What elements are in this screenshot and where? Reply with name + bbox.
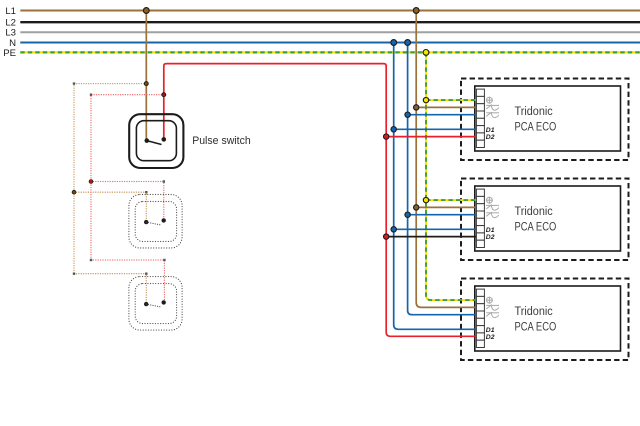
svg-text:PCA ECO: PCA ECO	[515, 322, 557, 334]
junction L1 switch drop	[143, 8, 149, 14]
svg-text:L1: L1	[5, 6, 16, 17]
AC terminal symbol N U1	[486, 113, 499, 118]
svg-text:D2: D2	[486, 234, 495, 241]
wire D2 feed ballast 2	[386, 236, 478, 238]
AC terminal symbol N U3	[486, 313, 499, 318]
junction red ghost tap	[162, 93, 166, 97]
earth terminal symbol U1	[486, 97, 493, 104]
ghost pulse switch S2 (dotted)	[129, 195, 182, 249]
svg-text:PE: PE	[3, 48, 16, 59]
svg-text:D2: D2	[486, 334, 495, 341]
junction brown ghost tap	[144, 82, 148, 86]
wire PE feed ballast 1	[426, 99, 478, 101]
bus L1	[5, 6, 640, 17]
ghost junction red branch	[89, 180, 93, 184]
svg-text:Pulse switch: Pulse switch	[192, 135, 251, 147]
earth terminal symbol U3	[486, 297, 493, 304]
wire PE feed ballast 2	[426, 199, 478, 201]
terminal strip U1	[476, 89, 484, 147]
svg-text:PCA ECO: PCA ECO	[515, 222, 557, 234]
wire PE drop (yellow-green)	[426, 52, 478, 300]
ghost pulse switch S3 (dotted)	[129, 277, 182, 331]
junction N drop	[405, 40, 411, 46]
ghost wire bus red (dotted)	[91, 95, 164, 303]
bus N	[9, 38, 640, 49]
AC terminal symbol N U2	[486, 213, 499, 218]
pulse switch S1	[129, 114, 183, 168]
svg-text:Tridonic: Tridonic	[515, 106, 553, 118]
junction PE drop	[423, 50, 429, 56]
AC terminal symbol L U1	[486, 105, 499, 110]
junction PE ballast 2	[423, 197, 428, 202]
wire L drop (brown)	[416, 11, 478, 308]
junction D2 ballast 1	[384, 134, 389, 139]
ballast U3 Tridonic PCA ECO	[461, 279, 629, 361]
wire pulse switch to D2 bus (red)	[164, 64, 478, 337]
wire N feed ballast 2	[408, 214, 478, 216]
ghost corner anchor brown bottom	[73, 273, 75, 275]
junction D1 ballast 1	[391, 127, 396, 132]
junction D2 ballast 2	[384, 234, 389, 239]
junction L1 ballast drop	[413, 8, 419, 14]
junction L ballast 1	[414, 105, 419, 110]
junction N ballast 1	[405, 112, 410, 117]
junction D1 drop	[391, 40, 397, 46]
svg-text:D1: D1	[486, 327, 495, 334]
terminal strip U2	[476, 189, 484, 247]
ghost corner anchor red to S3	[163, 259, 165, 261]
bus PE	[3, 48, 640, 59]
junction N ballast 2	[405, 212, 410, 217]
wire N feed ballast 1	[408, 114, 478, 116]
ghost corner anchor brown to S2	[145, 191, 147, 193]
svg-text:Tridonic: Tridonic	[515, 306, 553, 318]
wire D1 feed ballast 1	[394, 128, 478, 130]
terminal strip U3	[476, 289, 484, 347]
junction L ballast 2	[414, 205, 419, 210]
junction D1 ballast 2	[391, 227, 396, 232]
AC terminal symbol L U2	[486, 205, 499, 210]
earth terminal symbol U2	[486, 197, 493, 204]
ghost corner anchor brown top	[73, 82, 75, 84]
wire L feed ballast 1	[416, 106, 478, 108]
ghost junction brown branch	[72, 190, 76, 194]
bus L3	[5, 28, 640, 39]
svg-text:D2: D2	[486, 134, 495, 141]
ghost corner anchor red top	[90, 94, 92, 96]
ghost corner anchor red bottom	[90, 259, 92, 261]
wire D1 feed ballast 2	[394, 228, 478, 230]
ballast U2 Tridonic PCA ECO	[461, 179, 629, 261]
AC terminal symbol L U3	[486, 305, 499, 310]
wire L1 drop to pulse switch (brown)	[145, 11, 147, 141]
ghost wire bus brown (dotted)	[74, 84, 146, 305]
ballast U1 Tridonic PCA ECO	[461, 79, 629, 161]
wire N drop (blue)	[408, 43, 478, 315]
wire L feed ballast 2	[416, 206, 478, 208]
svg-text:D1: D1	[486, 127, 495, 134]
junction PE ballast 1	[423, 97, 428, 102]
wire D2 feed ballast 1	[386, 136, 478, 138]
svg-text:D1: D1	[486, 227, 495, 234]
bus L2	[5, 18, 640, 29]
svg-text:Tridonic: Tridonic	[515, 206, 553, 218]
ghost corner anchor brown to S3	[145, 273, 147, 275]
ghost corner anchor red to S2	[163, 180, 165, 182]
wire D1 drop (blue)	[394, 43, 478, 330]
svg-text:PCA ECO: PCA ECO	[515, 122, 557, 134]
